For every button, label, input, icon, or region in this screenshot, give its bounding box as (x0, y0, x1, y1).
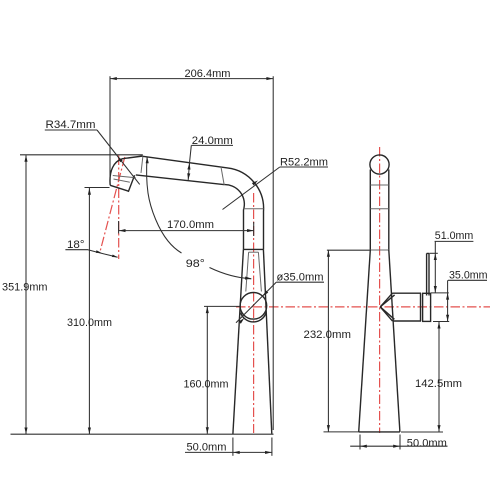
svg-text:R34.7mm: R34.7mm (46, 119, 96, 131)
svg-text:35.0mm: 35.0mm (449, 270, 488, 282)
svg-text:232.0mm: 232.0mm (304, 329, 352, 341)
svg-text:160.0mm: 160.0mm (184, 379, 229, 391)
svg-text:310.0mm: 310.0mm (67, 317, 112, 329)
svg-text:170.0mm: 170.0mm (167, 219, 214, 231)
svg-text:51.0mm: 51.0mm (435, 230, 474, 242)
svg-text:50.0mm: 50.0mm (407, 437, 447, 449)
svg-text:ø35.0mm: ø35.0mm (277, 271, 324, 283)
svg-text:50.0mm: 50.0mm (187, 442, 227, 454)
svg-text:206.4mm: 206.4mm (185, 68, 231, 80)
svg-text:142.5mm: 142.5mm (415, 378, 462, 390)
svg-text:98°: 98° (186, 258, 205, 270)
svg-text:351.9mm: 351.9mm (2, 281, 48, 293)
